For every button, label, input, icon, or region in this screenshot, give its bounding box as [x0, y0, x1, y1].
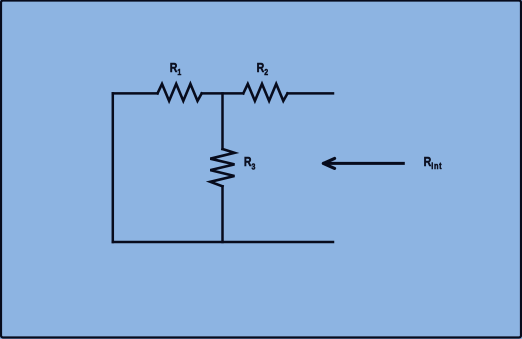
wire: left vertical branch — [112, 93, 115, 242]
arrow: pointer for R_int — [323, 158, 404, 168]
wire: between R1 and R2 (through top node) — [202, 92, 244, 95]
node: junction of R1, R2 and R3 — [221, 92, 224, 95]
resistor R1 — [158, 84, 202, 101]
resistor R3 — [210, 149, 234, 186]
wire: middle vertical lower segment — [221, 186, 224, 242]
node: bottom junction — [221, 241, 224, 244]
wire: middle vertical upper segment — [221, 93, 224, 149]
wire: bottom horizontal segment — [113, 241, 333, 244]
wire: top-right horizontal segment — [288, 92, 334, 95]
resistor R2 — [243, 84, 287, 101]
wire: top-left horizontal segment — [113, 92, 158, 95]
